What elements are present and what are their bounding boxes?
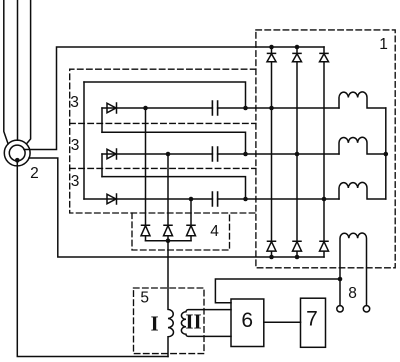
svg-text:3: 3 [71,137,80,154]
wire wrap line winding 1 [84,82,246,108]
inductor field winding (element near 8) [340,233,367,306]
wire link phase2 to wrap3 [101,154,103,177]
box 3 dashed divider lower [70,167,256,169]
box 3 dashed enclosure [70,69,256,213]
diode VD2-2 bottom [293,241,302,257]
wire wrap line winding 2 [102,132,246,154]
node phase3 tap [189,197,194,202]
box 5 dashed enclosure [134,288,205,354]
wire phase line 3 left segment [84,198,212,200]
wire supply line L2 [17,0,19,140]
capacitor C2 [212,147,217,161]
node column3 phase3 [322,197,327,202]
diode VD1-2 top [293,47,302,62]
diode VD2-3 bottom [320,241,329,257]
wire tap column 2 to rectifier 4 [167,154,169,225]
svg-text:II: II [185,309,201,333]
diode VD2-1 bottom [267,241,276,257]
wire rectifier 4 output bus [146,240,192,242]
node field winding / control connection [338,277,343,282]
wire link phase1 to wrap2 [101,108,103,132]
capacitor C1 [212,101,217,115]
diode VD4-3 [187,225,196,241]
inductor W1 armature winding [339,92,386,108]
box 1 dashed enclosure [256,30,395,268]
svg-text:8: 8 [348,285,357,302]
wire phase line 1 left segment [102,107,212,109]
node rectifier 4 output [166,238,171,243]
diode VD4-2 [164,225,173,241]
box 4 dashed enclosure [132,213,230,250]
node bottom bus column 1 [269,255,274,260]
node column1 phase1 [269,106,274,111]
machine 2 inner circle [9,145,25,161]
wire star point bus [385,108,387,199]
node phase3 right [243,197,248,202]
node phase1 right [243,106,248,111]
wire from machine 2 bottom to transformer primary [17,160,168,356]
capacitor C3 [212,192,217,206]
svg-text:I: I [151,311,159,335]
svg-text:6: 6 [241,309,253,332]
node column2 phase2 [295,152,300,157]
diode D1 on phase line 1 [107,103,117,113]
wire rectifier column 1 [271,62,273,241]
node bottom bus column 2 [295,255,300,260]
wire rectifier column 2 [296,62,298,241]
wire supply line L3 [27,0,31,144]
wire left bus of winding ring [83,82,85,199]
node top bus column 1 [269,45,274,50]
wire box6 to field circuit [215,279,340,303]
svg-text:5: 5 [140,289,149,306]
wire rectifier column 3 [323,62,325,241]
svg-text:7: 7 [306,308,318,331]
wire from outer ring to bottom DC bus [29,158,324,257]
svg-text:2: 2 [30,165,39,182]
wire box6 to box7 [264,321,301,323]
wire tap column 1 to rectifier 4 [145,108,147,225]
node at machine 2 bottom [15,158,20,163]
diode VD1-3 top [320,47,329,62]
wire supply line L1 [4,0,8,144]
diode VD4-1 [141,225,150,241]
node top bus column 2 [295,45,300,50]
wire phase line 2 right segment [218,153,339,155]
transformer winding II [181,310,231,337]
node phase2 tap [166,152,171,157]
wire phase line 2 left segment [102,153,212,155]
svg-text:3: 3 [70,94,79,111]
node phase2 right [243,152,248,157]
wire wrap line winding 3 [102,177,246,199]
terminal brush left [337,306,343,312]
svg-text:1: 1 [379,36,388,53]
box 3 dashed divider upper [70,122,256,124]
diode D3 on phase line 3 [107,194,117,204]
inductor W3 armature winding [339,182,386,199]
wire tap column 3 to rectifier 4 [190,199,192,225]
wire from inner ring to top DC bus [24,47,324,150]
diode VD1-1 top [267,47,276,62]
wire phase line 1 right segment [218,107,339,109]
diode D2 on phase line 2 [107,149,117,159]
svg-text:3: 3 [71,173,80,190]
svg-text:4: 4 [210,223,219,240]
inductor W2 armature winding [339,137,386,154]
box 6 regulator [231,299,264,347]
box 7 setter [301,298,326,347]
wire phase line 3 right segment [218,198,339,200]
node phase1 tap [143,106,148,111]
node star point [384,152,389,157]
terminal brush right [363,306,369,312]
machine 2 outer circle [4,140,30,166]
transformer winding I [168,241,173,357]
